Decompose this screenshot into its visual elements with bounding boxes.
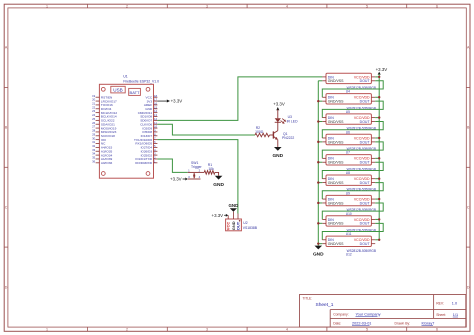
svg-text:5: 5 [366,4,368,8]
svg-text:5: 5 [366,328,368,332]
svg-text:3: 3 [206,328,208,332]
svg-text:U11: U11 [346,232,352,236]
svg-text:GND/VSS: GND/VSS [328,222,344,226]
svg-text:IR LED: IR LED [287,119,298,123]
wire U1 CLK/IO6 to R2 [157,124,255,135]
svg-text:D: D [467,285,470,289]
wire U6 VSS to GND rail [317,120,322,122]
svg-text:Sheet:: Sheet: [436,313,446,317]
svg-text:2: 2 [126,4,128,8]
svg-text:U8: U8 [346,171,350,175]
svg-text:+3.3V: +3.3V [376,67,388,72]
wire U4 VSS to GND rail [318,80,322,82]
+3.3V net flag at U2 VCC [212,213,229,218]
svg-text:+3.3V: +3.3V [273,102,285,107]
ground at U2 GND pin [229,203,239,214]
svg-text:C: C [5,205,8,209]
ws2812b module U12 [322,236,376,256]
ws2812b module U6 [322,114,376,134]
svg-text:REV:: REV: [436,301,444,305]
svg-text:U2: U2 [243,221,247,225]
svg-text:6: 6 [436,4,438,8]
wire U12 VCC to +3.3V rail [375,239,380,241]
svg-text:3: 3 [206,4,208,8]
wire U4 DOUT to U5 DIN [322,81,383,97]
svg-text:1/1: 1/1 [453,313,458,317]
svg-text:Date:: Date: [333,321,341,325]
wire U5 VCC to +3.3V rail [375,96,380,98]
ws2812b module U7 [322,134,376,154]
switch SW1 Trigger [188,161,203,179]
svg-text:DOUT: DOUT [360,79,371,83]
svg-text:C: C [467,205,470,209]
svg-text:U1: U1 [123,74,128,78]
svg-text:4: 4 [286,328,288,332]
svg-text:D: D [5,285,8,289]
svg-text:6: 6 [436,328,438,332]
ws2812b module U9 [322,175,376,195]
svg-text:BATT: BATT [130,90,140,95]
svg-text:KGray7: KGray7 [422,322,435,326]
wire U1 SD0/IO7 to U4 DIN [157,77,322,120]
title block [300,295,466,328]
ws2812b module U8 [322,155,376,175]
svg-text:GND: GND [213,182,224,188]
svg-text:GND/VSS: GND/VSS [328,201,344,205]
wire U9 DOUT to U10 DIN [322,183,383,199]
svg-text:TITLE:: TITLE: [303,296,313,300]
IR receiver U2 VS1838B [226,214,258,231]
wire U11 DOUT to U12 DIN [322,223,383,239]
svg-text:2022-03-01: 2022-03-01 [352,322,371,326]
+3.3V net flag at SW1 pin3 [170,177,188,182]
LED U3 IR LED [275,115,298,124]
svg-text:VCC: VCC [226,222,231,231]
svg-text:GND/VSS: GND/VSS [328,181,344,185]
+3.3V net flag above U3 [273,102,285,119]
svg-text:PN2222: PN2222 [282,136,294,140]
svg-text:Sheet_1: Sheet_1 [316,302,334,308]
svg-text:DOUT: DOUT [360,201,371,205]
wire U10 DOUT to U11 DIN [322,203,383,219]
svg-text:10k: 10k [208,167,214,171]
svg-text:GND: GND [272,153,283,159]
ws2812b module U11 [322,216,376,236]
wire U11 VCC to +3.3V rail [375,218,380,220]
wire U5 VSS to GND rail [317,100,322,102]
wire U5 DOUT to U6 DIN [322,101,383,117]
svg-text:U12: U12 [346,252,352,256]
wire U7 VCC to +3.3V rail [375,137,380,139]
wire U10 VSS to GND rail [317,202,322,204]
svg-text:DOUT: DOUT [360,100,371,104]
wire U8 VSS to GND rail [317,161,322,163]
wire U8 VCC to +3.3V rail [375,157,380,159]
wire U6 VCC to +3.3V rail [375,116,380,118]
wire U7 DOUT to U8 DIN [322,142,383,158]
svg-text:GND/VSS: GND/VSS [328,100,344,104]
ws2812b module U10 [322,195,376,215]
resistor R2 100Ω [255,126,273,137]
wire U10 VCC to +3.3V rail [375,198,380,200]
transistor Q1 PN2222 [273,122,294,147]
svg-text:GND/VSS: GND/VSS [328,242,344,246]
svg-text:OUT: OUT [236,221,241,230]
svg-text:FireBeetle ESP32_V1.0: FireBeetle ESP32_V1.0 [123,80,159,84]
svg-text:1.0: 1.0 [452,302,457,306]
svg-text:GND: GND [313,251,324,257]
wire U8 DOUT to U9 DIN [322,162,383,178]
svg-text:Company:: Company: [333,312,349,316]
svg-text:DOUT: DOUT [360,242,371,246]
svg-text:GND/VSS: GND/VSS [328,140,344,144]
wire R1 to GND [215,172,219,175]
svg-text:U9: U9 [346,191,350,195]
svg-text:GND: GND [229,203,239,208]
svg-text:+3.3V: +3.3V [171,99,183,104]
wire U6 DOUT to U7 DIN [322,122,383,138]
svg-text:36: 36 [92,159,96,163]
ground at Q1 emitter [272,147,283,159]
svg-text:Trigger: Trigger [191,165,202,169]
wire U11 VSS to GND rail [317,222,322,224]
svg-text:GND/VSS: GND/VSS [328,120,344,124]
+3.3V net flag at LED rail [376,67,388,77]
svg-text:2: 2 [126,328,128,332]
svg-text:U5: U5 [346,110,350,114]
wire GND rail (VSS) [317,81,319,246]
wire U9 VCC to +3.3V rail [375,178,380,180]
wire U7 VSS to GND rail [317,141,322,143]
svg-text:DOUT: DOUT [360,161,371,165]
svg-text:1: 1 [46,328,48,332]
svg-text:VS1838B: VS1838B [243,226,258,230]
svg-text:DOUT: DOUT [360,140,371,144]
wire U9 VSS to GND rail [317,181,322,183]
wire +3.3V rail (VCC) [378,77,380,240]
svg-text:U6: U6 [346,130,350,134]
ground at GND rail bottom [313,246,324,258]
svg-text:Drawn By:: Drawn By: [395,321,411,325]
svg-text:+3.3V: +3.3V [212,213,224,218]
svg-text:IO3/D0/RXD: IO3/D0/RXD [135,161,153,165]
svg-text:U7: U7 [346,151,350,155]
svg-text:+3.3V: +3.3V [170,177,182,182]
svg-text:4: 4 [286,4,288,8]
resistor R1 10k [201,163,215,174]
mcu U1 FireBeetle ESP32 [92,74,159,178]
ws2812b module U4 [322,73,376,93]
svg-text:1: 1 [46,4,48,8]
svg-text:A0/IO36: A0/IO36 [101,161,113,165]
ground at R1 [213,176,224,188]
svg-text:U4: U4 [346,90,350,94]
wire U1 IO1/D1/TXD to SW1 pin1 [157,159,187,172]
wire U1 TX1/IO10/D6 to U2 OUT [157,140,238,214]
svg-text:DOUT: DOUT [360,181,371,185]
svg-text:DOUT: DOUT [360,120,371,124]
svg-text:DOUT: DOUT [360,222,371,226]
wire U4 VCC to +3.3V rail [375,76,380,78]
+3.3V net flag at U1 3V3 pin [157,99,182,104]
svg-text:GND/VSS: GND/VSS [328,161,344,165]
ws2812b module U5 [322,94,376,114]
svg-text:U10: U10 [346,212,352,216]
svg-text:Your Company: Your Company [356,313,381,317]
svg-text:USB: USB [113,88,122,93]
wire U12 VSS to GND rail [317,242,322,244]
svg-text:GND/VSS: GND/VSS [328,79,344,83]
